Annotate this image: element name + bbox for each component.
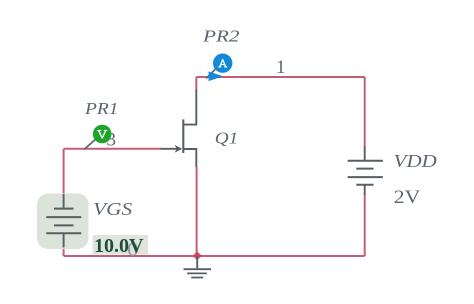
wire: gate horizontal net 3 bbox=[64, 148, 161, 150]
wire: right vertical into VDD top bbox=[364, 77, 366, 147]
battery VDD plate long 1 bbox=[348, 160, 383, 162]
svg-text:VDD: VDD bbox=[394, 151, 437, 171]
battery VGS plate short 1 bbox=[54, 208, 74, 210]
probe PR2 current arrow bbox=[209, 72, 223, 82]
probe PR2 circle bbox=[213, 54, 232, 73]
wire: top horizontal drain-to-VDD net 1 bbox=[196, 76, 364, 78]
transistor Q1 gate arrowhead bbox=[175, 145, 182, 153]
battery VGS top pin bbox=[63, 194, 65, 209]
junction dot bbox=[193, 251, 202, 260]
value box 10.0V background bbox=[93, 235, 149, 255]
probe PR1 circle bbox=[93, 125, 112, 144]
battery VGS plate long 2 bbox=[46, 232, 81, 234]
svg-text:PR1: PR1 bbox=[84, 99, 119, 118]
ground bar 3 bbox=[191, 277, 203, 279]
wire: bottom horizontal ground net 0 bbox=[64, 255, 365, 257]
wire: right vertical from VDD bottom bbox=[364, 195, 366, 257]
wire: source vertical to junction bbox=[196, 167, 198, 257]
battery VDD bottom pin bbox=[364, 185, 366, 195]
battery VGS bottom pin bbox=[63, 233, 65, 247]
battery VDD plate long 2 bbox=[348, 176, 383, 178]
svg-text:1: 1 bbox=[276, 57, 286, 78]
probe PR1 letter V bbox=[98, 131, 107, 138]
svg-text:Q1: Q1 bbox=[215, 129, 239, 148]
svg-text:VGS: VGS bbox=[93, 199, 132, 219]
battery VGS plate short 2 bbox=[54, 224, 74, 226]
battery VGS plate long 1 bbox=[46, 216, 81, 218]
transistor Q1 channel bar bbox=[182, 119, 184, 153]
wire: left vertical top into VGS bbox=[63, 149, 65, 195]
svg-text:10.0V: 10.0V bbox=[94, 235, 144, 257]
wire: drain vertical stub bbox=[195, 77, 197, 90]
transistor Q1 gate pin bbox=[161, 148, 182, 150]
probe PR2 pointer tail bbox=[206, 68, 217, 79]
transistor Q1 source pin bbox=[183, 149, 196, 167]
battery VDD plate short 1 bbox=[356, 168, 373, 170]
battery VDD top pin bbox=[364, 147, 366, 161]
probe PR2 letter A bbox=[219, 60, 227, 67]
wire: left vertical from VGS bottom bbox=[63, 247, 65, 256]
probe PR1 pointer tail bbox=[84, 138, 97, 150]
battery VDD plate short 2 bbox=[356, 184, 373, 186]
ground bar 2 bbox=[187, 272, 207, 274]
transistor Q1 drain pin bbox=[183, 90, 196, 125]
svg-text:PR2: PR2 bbox=[202, 27, 240, 46]
ground bar 1 bbox=[184, 268, 212, 270]
battery VGS background bbox=[37, 194, 89, 250]
svg-text:2V: 2V bbox=[394, 188, 421, 208]
ground stem bbox=[196, 256, 198, 269]
